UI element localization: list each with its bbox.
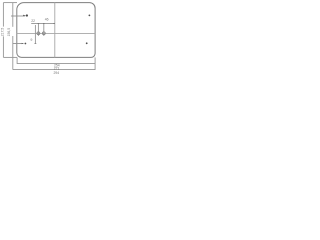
svg-text:46: 46 — [45, 18, 49, 22]
svg-text:9: 9 — [30, 38, 32, 42]
svg-text:294: 294 — [53, 71, 59, 75]
svg-text:271: 271 — [54, 66, 60, 70]
svg-text:22: 22 — [31, 19, 35, 23]
svg-text:156,5: 156,5 — [7, 28, 11, 37]
svg-text:217,5: 217,5 — [1, 28, 5, 37]
